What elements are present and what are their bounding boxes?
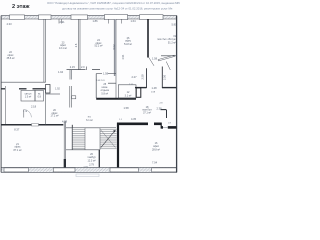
svg-text:1.58: 1.58 [123,106,129,110]
svg-text:5.8 м²: 5.8 м² [101,93,108,96]
svg-text:ООО "Ликвидер Недвижимость", У: ООО "Ликвидер Недвижимость", УНП 1925084… [47,1,180,5]
svg-text:1.48: 1.48 [151,86,157,90]
svg-text:8.37: 8.37 [14,127,20,131]
svg-text:51.8 м²: 51.8 м² [124,43,132,46]
svg-text:1.64: 1.64 [130,19,136,23]
svg-text:28.8 м²: 28.8 м² [152,148,160,151]
svg-text:2.0: 2.0 [81,65,85,69]
svg-text:1.5 м²: 1.5 м² [25,96,32,99]
svg-text:87.1 м²: 87.1 м² [13,149,21,152]
svg-text:1.92: 1.92 [55,87,60,90]
svg-text:отдыха: отдыха [101,89,110,92]
svg-text:2.38: 2.38 [156,106,162,110]
svg-text:2 этаж: 2 этаж [12,4,31,10]
svg-text:4.33: 4.33 [6,22,12,26]
svg-text:6.1 м²: 6.1 м² [86,119,93,122]
svg-text:2.79: 2.79 [89,164,94,167]
svg-text:договор на оказание риэлтерски: договор на оказание риэлтерских услуг №1… [62,7,173,11]
svg-text:2.27: 2.27 [131,75,137,79]
svg-text:37.1 м²: 37.1 м² [143,112,151,115]
svg-text:5.81: 5.81 [171,22,177,26]
svg-text:2.56: 2.56 [162,74,166,80]
svg-text:51.2 м²: 51.2 м² [168,42,176,45]
svg-text:4.35: 4.35 [131,117,137,121]
svg-text:7.04: 7.04 [152,160,158,164]
svg-text:1.94: 1.94 [58,70,64,74]
svg-text:1.58: 1.58 [103,72,109,76]
svg-text:52.2 м²: 52.2 м² [94,45,102,48]
svg-text:2.58: 2.58 [141,74,145,80]
svg-text:13.1 м²: 13.1 м² [59,47,67,50]
svg-text:2.15: 2.15 [70,65,76,69]
svg-text:35.6 м²: 35.6 м² [6,57,14,60]
svg-text:3.1 м²: 3.1 м² [125,94,132,97]
svg-text:2.6: 2.6 [74,43,78,47]
svg-text:1.58: 1.58 [152,56,158,60]
svg-text:17.2 м²: 17.2 м² [50,115,58,118]
svg-text:12.3 м²: 12.3 м² [87,159,95,162]
svg-text:1.86: 1.86 [92,19,98,23]
svg-text:6.02: 6.02 [112,44,116,50]
svg-text:1.08 2.01: 1.08 2.01 [96,80,105,82]
svg-text:2.18: 2.18 [31,104,37,108]
svg-text:4.38: 4.38 [62,120,68,124]
svg-text:2.94: 2.94 [122,54,125,59]
svg-text:2.91: 2.91 [59,20,65,24]
